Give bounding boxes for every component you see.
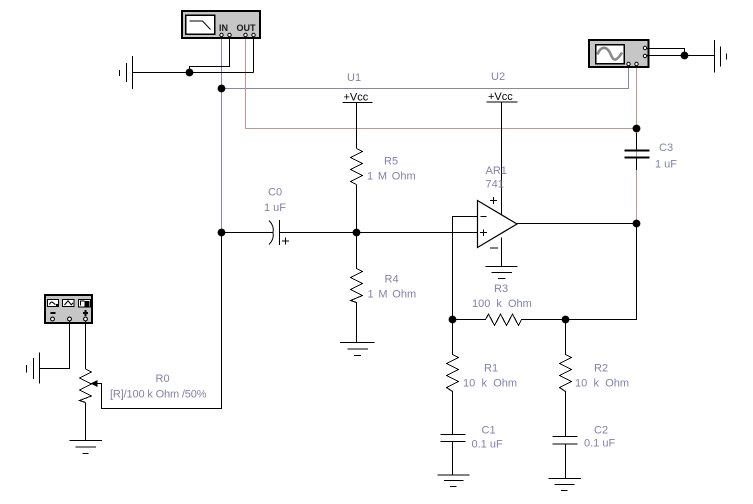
resistor R3	[453, 314, 566, 326]
ground under C1	[438, 475, 470, 487]
svg-text:0.1 uF: 0.1 uF	[584, 438, 615, 450]
wire R5 to node mid	[356, 185, 358, 233]
wire scope channel A blue from node to oscilloscope bottom-left terminal	[222, 64, 629, 89]
wire C0 to node mid	[280, 232, 357, 234]
junction scope ground node	[681, 52, 689, 60]
wire red from node OUT down through C3 to output node	[636, 129, 638, 224]
terminal FG common	[68, 317, 72, 321]
terminal scope bottom B	[635, 62, 638, 65]
svg-text:10 k Ohm: 10 k Ohm	[575, 378, 629, 390]
wire red from node OUT up to oscilloscope bottom-right terminal	[636, 64, 638, 129]
svg-text:OUT: OUT	[237, 23, 257, 33]
svg-text:C2: C2	[594, 425, 608, 437]
wire C2 to ground	[565, 444, 567, 479]
ground bottom-left	[27, 353, 40, 384]
svg-text:1 M Ohm: 1 M Ohm	[367, 171, 416, 183]
svg-text:+Vcc: +Vcc	[488, 91, 513, 103]
svg-text:C1: C1	[482, 425, 496, 437]
junction node OUT (C3 top)	[633, 125, 641, 133]
svg-text:C0: C0	[268, 187, 282, 199]
terminal IN-	[228, 33, 231, 36]
terminal scope right top	[643, 46, 646, 49]
svg-text:1 uF: 1 uF	[264, 202, 286, 214]
svg-text:1 M Ohm: 1 M Ohm	[368, 289, 417, 301]
oscilloscope instrument	[589, 40, 649, 67]
resistor R5	[351, 149, 363, 185]
svg-text:100 k Ohm: 100 k Ohm	[472, 298, 532, 310]
wire IN+ blue vertical from Bode plotter down to node C0-left	[221, 37, 223, 233]
svg-text:IN: IN	[219, 23, 228, 33]
wire FG common to ground	[40, 321, 70, 369]
svg-text:R0: R0	[156, 373, 170, 385]
svg-text:R5: R5	[384, 156, 398, 168]
ground under R4	[340, 343, 375, 356]
svg-text:R3: R3	[494, 283, 508, 295]
Bode plotter instrument	[182, 11, 260, 38]
wire IN- black from Bode plotter to ground junction	[190, 37, 230, 73]
resistor R2	[560, 320, 572, 437]
wire R0 wiper to node C0-left	[97, 233, 222, 409]
resistor R1	[447, 320, 459, 435]
wire scope right-bottom terminal to ground	[647, 55, 715, 57]
wire OUT- black from Bode plotter to ground junction and ground stem	[253, 37, 255, 73]
junction Bode/ground node	[186, 69, 194, 77]
junction node C0-left	[218, 229, 226, 237]
potentiometer R0	[80, 369, 98, 441]
ground under op-amp	[486, 267, 518, 279]
terminal OUT-	[252, 33, 255, 36]
capacitor C1	[441, 435, 466, 442]
FG minus symbol	[51, 312, 56, 314]
svg-text:R4: R4	[385, 274, 399, 286]
svg-text:741: 741	[486, 179, 504, 191]
capacitor C3	[625, 133, 650, 170]
junction R3 left node	[449, 316, 457, 324]
wire OUT+ red from Bode plotter down then right to node OUT	[246, 37, 637, 129]
terminal scope right bottom	[643, 54, 646, 57]
resistor R4	[351, 233, 363, 343]
power +Vcc U1	[343, 92, 373, 149]
wire scope right-top terminal to ground junction	[647, 49, 685, 56]
junction R3 right node	[562, 316, 570, 324]
terminal OUT+	[244, 33, 247, 36]
junction node mid (R5/R4/C0)	[353, 229, 361, 237]
svg-text:C3: C3	[659, 142, 673, 154]
wire node mid to op-amp non-inverting input	[357, 232, 478, 234]
svg-text:AR1: AR1	[486, 165, 507, 177]
wire FG plus to potentiometer R0	[85, 321, 87, 369]
terminal IN+	[220, 33, 223, 36]
ground under C2	[549, 479, 582, 491]
svg-text:U1: U1	[347, 72, 361, 84]
svg-text:1 uF: 1 uF	[655, 159, 677, 171]
ground top-left	[120, 56, 133, 89]
ground under R0	[70, 441, 103, 454]
svg-text:U2: U2	[491, 71, 505, 83]
ground top-right	[715, 40, 727, 73]
FG plus symbol	[83, 312, 88, 314]
svg-text:10 k Ohm: 10 k Ohm	[463, 378, 517, 390]
wire node C0-left to C0	[222, 232, 273, 234]
capacitor C2	[553, 437, 578, 445]
op-amp AR1 741	[478, 197, 518, 267]
svg-text:R1: R1	[484, 363, 498, 375]
terminal FG plus	[84, 317, 88, 321]
terminal FG minus	[51, 317, 55, 321]
svg-text:0.1 uF: 0.1 uF	[472, 439, 503, 451]
svg-text:[R]/100 k Ohm /50%: [R]/100 k Ohm /50%	[110, 389, 207, 401]
terminal scope bottom A	[627, 62, 630, 65]
function generator instrument	[45, 295, 92, 323]
wire op-amp inverting input to feedback node	[453, 217, 478, 320]
capacitor C0 polarized	[269, 220, 289, 245]
wire C1 to ground	[452, 442, 454, 476]
power +Vcc U2	[487, 91, 518, 215]
junction output node	[633, 220, 641, 228]
wire output node down and left to R3 right node	[566, 224, 637, 320]
junction blue node (scope tap)	[218, 85, 226, 93]
svg-text:R2: R2	[594, 363, 608, 375]
wire op-amp output to output node	[516, 223, 637, 225]
svg-text:+Vcc: +Vcc	[344, 92, 369, 104]
